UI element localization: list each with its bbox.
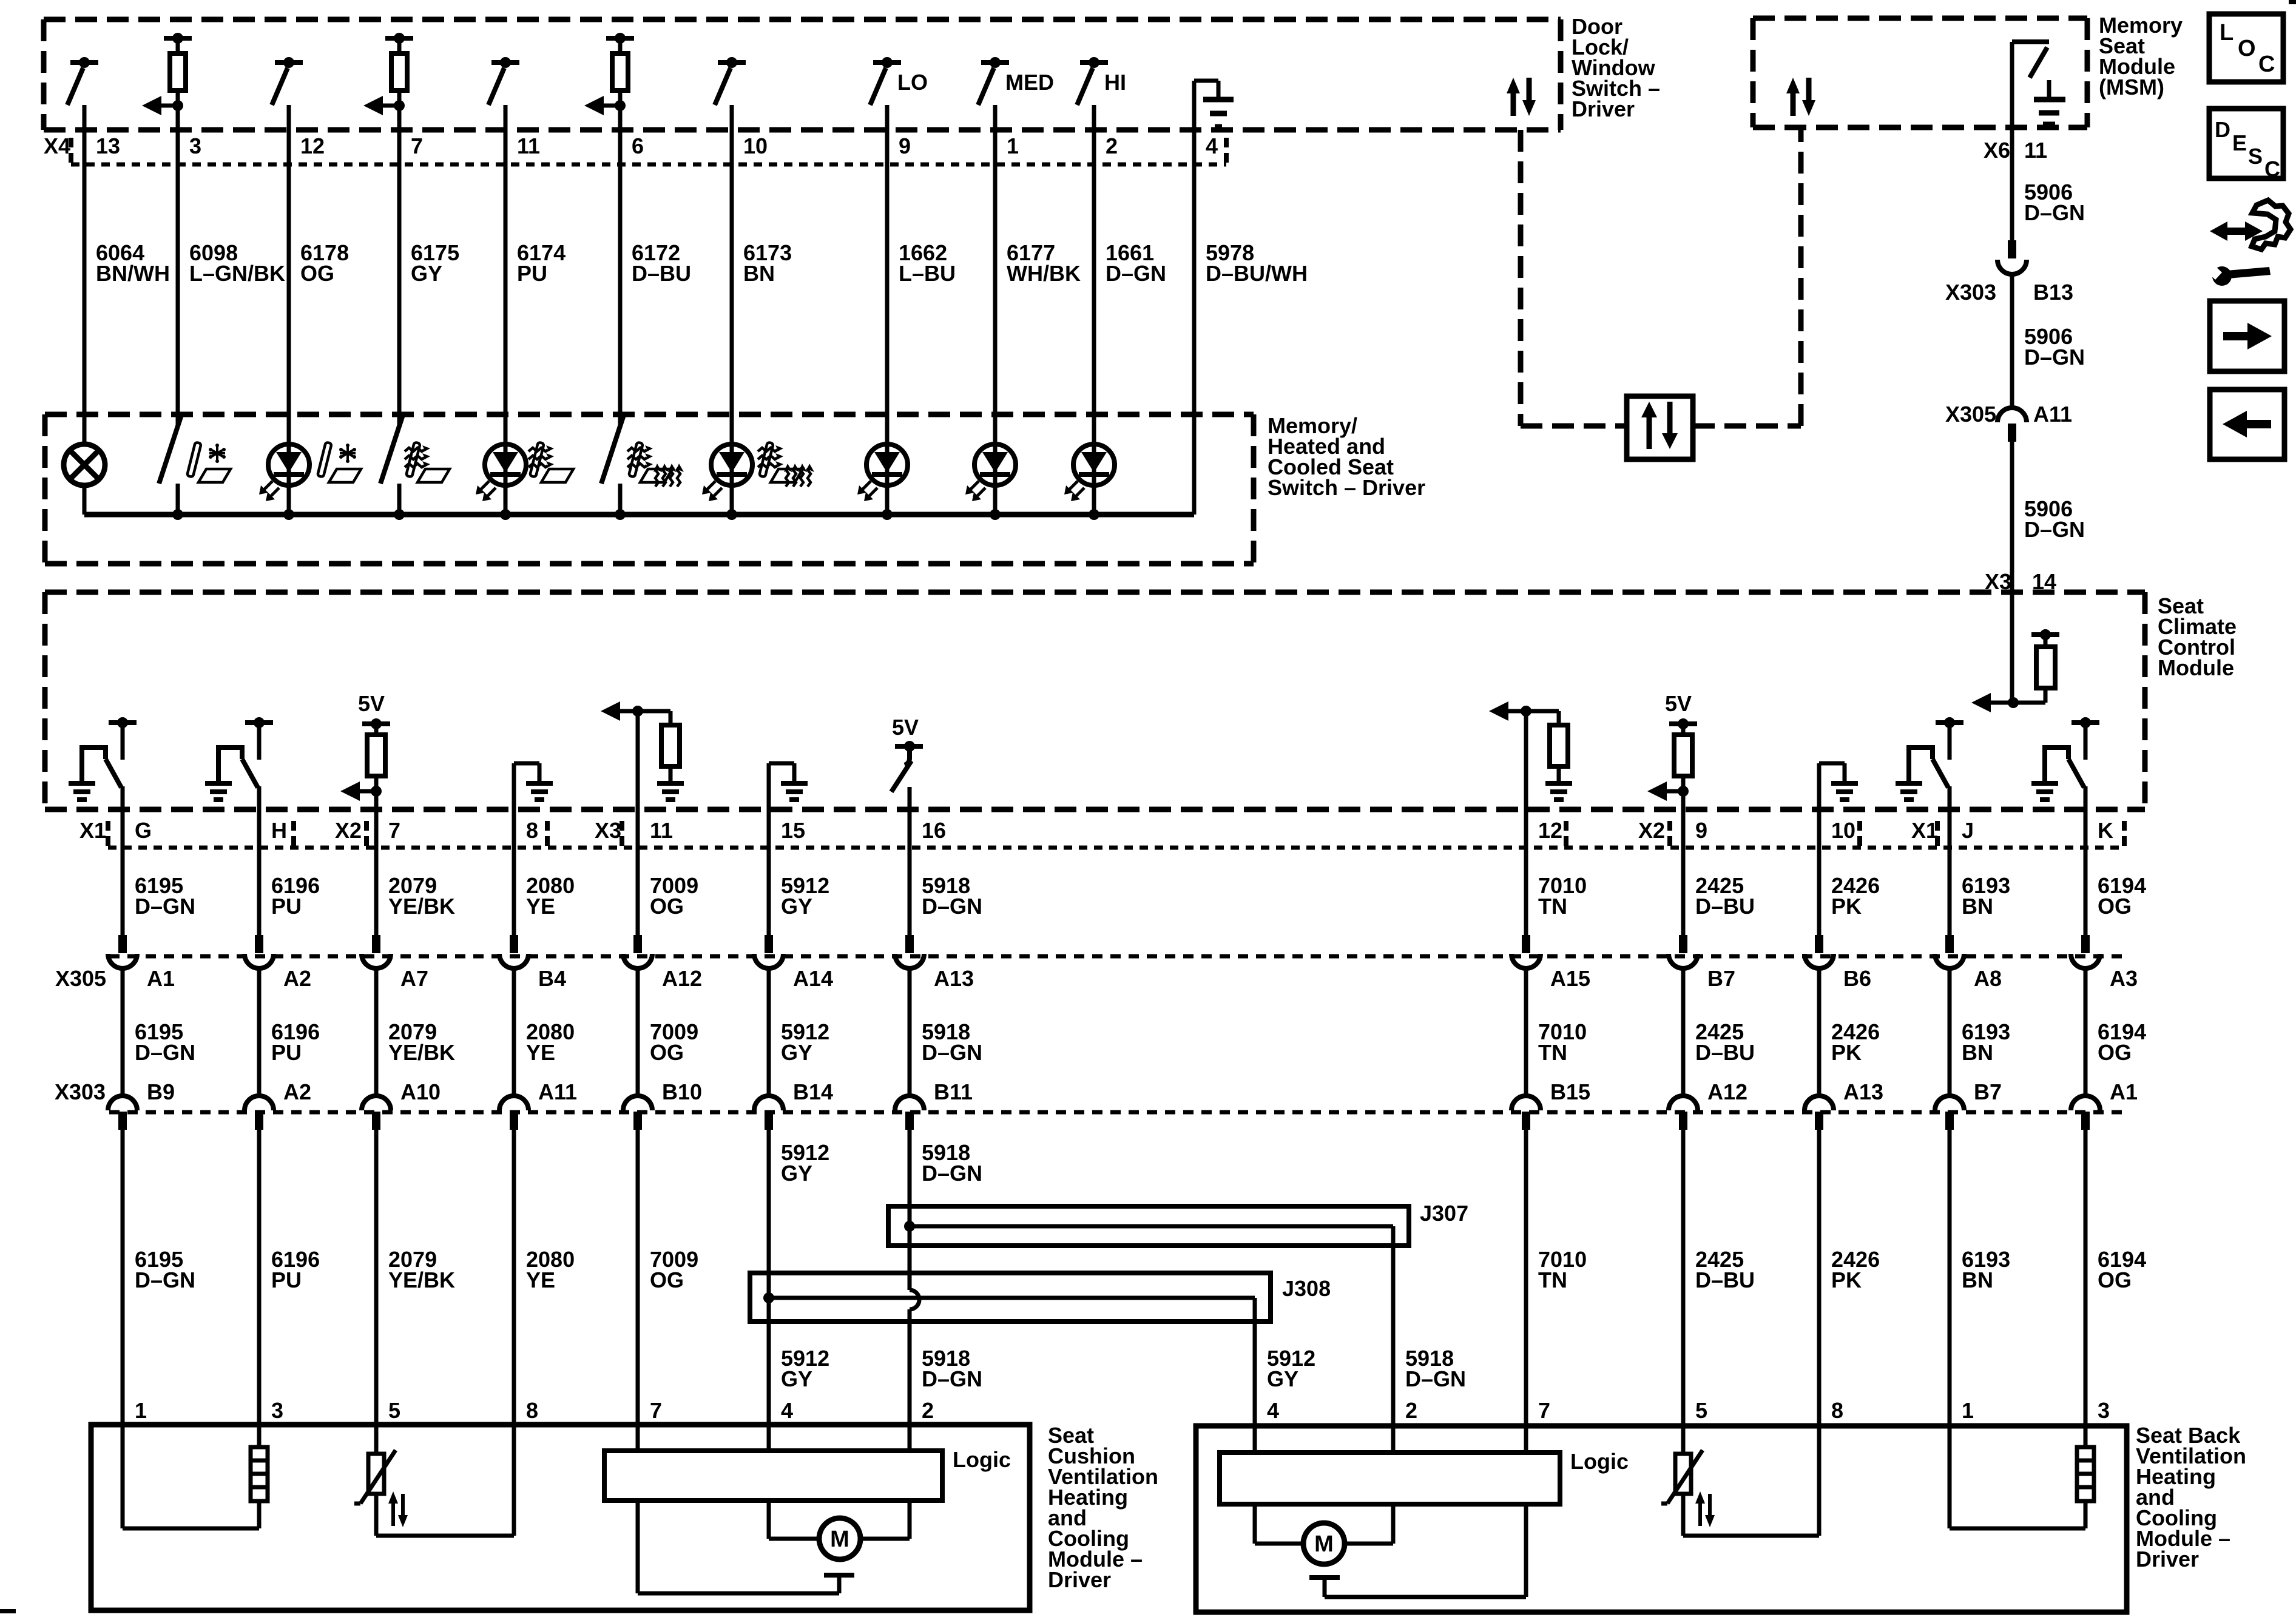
- svg-text:5V: 5V: [358, 691, 385, 716]
- svg-text:S: S: [2248, 144, 2263, 169]
- svg-text:WH/BK: WH/BK: [1007, 261, 1081, 286]
- connector X303 terminal A11: [499, 1096, 528, 1110]
- wire: [1524, 1130, 1528, 1427]
- switch contact in seat switch assembly at x=1640: [981, 60, 1009, 65]
- svg-text:A13: A13: [934, 966, 974, 991]
- svg-text:X303: X303: [1945, 280, 1996, 305]
- svg-text:5: 5: [1695, 1398, 1707, 1423]
- svg-text:Driver: Driver: [1572, 96, 1635, 121]
- temperature sensor (thermistor) at x=620: [368, 1454, 384, 1494]
- wire: [1817, 1130, 1822, 1427]
- svg-text:YE/BK: YE/BK: [388, 1040, 455, 1065]
- box: Memory/Heated-Cooled Seat + Door Lock/Window Switch assembly (top dashed box): [44, 17, 1561, 22]
- svg-text:GY: GY: [781, 1366, 812, 1391]
- svg-text:A1: A1: [2110, 1079, 2138, 1104]
- connector X305 terminal A15: [1522, 935, 1530, 953]
- signal arrow: [599, 104, 620, 108]
- svg-text:D–GN: D–GN: [2024, 200, 2085, 225]
- connector X305 terminal A1: [118, 935, 127, 953]
- svg-text:HI: HI: [1104, 70, 1126, 95]
- connector X305 terminal B4: [510, 935, 518, 953]
- svg-text:B7: B7: [1974, 1079, 2002, 1104]
- wire pin7 to logic: [636, 1427, 640, 1451]
- connector X303 terminal B10: [623, 1096, 652, 1110]
- svg-text:B7: B7: [1707, 966, 1735, 991]
- icon: harness repair (arrow + wrench): [2207, 200, 2291, 286]
- svg-text:1: 1: [1007, 133, 1019, 158]
- ground connection at x=2998: [1819, 761, 1845, 766]
- switch contact in seat switch assembly at x=476: [275, 60, 303, 65]
- svg-text:B13: B13: [2033, 280, 2073, 305]
- svg-text:D–GN: D–GN: [2024, 345, 2085, 370]
- svg-text:A3: A3: [2110, 966, 2138, 991]
- signal arrow: [157, 104, 178, 108]
- splice J307: [888, 1206, 1409, 1246]
- wire pin7 to logic (right): [1524, 1427, 1528, 1453]
- svg-text:J307: J307: [1420, 1201, 1468, 1226]
- svg-text:7: 7: [1538, 1398, 1550, 1423]
- wire 6173 from pin 10 through LED to bus: [730, 105, 734, 515]
- box: Seat Back Ventilation Heating and Cooling Module - Driver: [1196, 1426, 2127, 1612]
- svg-text:PU: PU: [271, 1268, 302, 1292]
- svg-text:8: 8: [1831, 1398, 1843, 1423]
- LED indicator at x=1462: [866, 444, 908, 485]
- wire: [512, 1130, 516, 1427]
- svg-text:TN: TN: [1538, 1268, 1567, 1292]
- up/down arrows in MSM: [1791, 89, 1796, 116]
- wire 6174 from pin 11 through LED to bus: [504, 105, 508, 515]
- svg-text:2: 2: [1106, 133, 1118, 158]
- svg-text:PU: PU: [271, 1040, 302, 1065]
- svg-text:GY: GY: [781, 1161, 812, 1186]
- ground connection at x=847: [514, 761, 539, 766]
- svg-text:X4: X4: [44, 133, 70, 158]
- wire: [1681, 1130, 1686, 1427]
- svg-text:A2: A2: [283, 966, 311, 991]
- svg-text:X305: X305: [1945, 402, 1996, 427]
- svg-text:A13: A13: [1843, 1079, 1883, 1104]
- svg-text:O: O: [2238, 36, 2256, 61]
- svg-text:Logic: Logic: [953, 1447, 1011, 1472]
- svg-text:LO: LO: [897, 70, 928, 95]
- svg-text:12: 12: [1538, 818, 1562, 843]
- heating element at x=3437: [2077, 1447, 2094, 1501]
- svg-text:YE: YE: [526, 894, 555, 919]
- input with pull-down resistor to ground at x=2515: [1521, 706, 1531, 717]
- LED indicator at x=476: [268, 444, 309, 485]
- svg-text:10: 10: [743, 133, 768, 158]
- wire 1662 from pin 9 through LED to bus: [885, 105, 890, 515]
- svg-text:OG: OG: [650, 1040, 684, 1065]
- switch contact in seat switch assembly at x=1803: [1080, 60, 1108, 65]
- motor ground return: [636, 1501, 640, 1593]
- switch to ground inside MSM: [2012, 39, 2049, 44]
- svg-text:9: 9: [1695, 818, 1707, 843]
- svg-text:E: E: [2232, 130, 2247, 155]
- svg-text:BN: BN: [1962, 1040, 1993, 1065]
- door lock / window switch arrows (up/down) inside assembly: [1511, 89, 1516, 116]
- wire: [2084, 1130, 2088, 1427]
- svg-text:J308: J308: [1282, 1276, 1331, 1301]
- svg-text:6: 6: [632, 133, 644, 158]
- svg-text:D–GN: D–GN: [922, 1040, 982, 1065]
- svg-text:B4: B4: [538, 966, 566, 991]
- svg-text:A12: A12: [662, 966, 702, 991]
- connector X303 terminal B15: [1511, 1096, 1541, 1110]
- svg-text:BN/WH: BN/WH: [96, 261, 170, 286]
- svg-text:B6: B6: [1843, 966, 1871, 991]
- svg-text:BN: BN: [1962, 1268, 1993, 1292]
- svg-text:3: 3: [271, 1398, 283, 1423]
- svg-text:C: C: [2258, 52, 2275, 77]
- svg-text:11: 11: [650, 818, 673, 843]
- motor leads: [767, 1501, 771, 1539]
- svg-text:PK: PK: [1831, 1268, 1862, 1292]
- svg-text:OG: OG: [300, 261, 334, 286]
- connector X305 terminal B6: [1815, 935, 1823, 953]
- dashed circuit route from door lock/window switch: [1518, 130, 1524, 426]
- in-line connector X305 A11: [1997, 408, 2027, 422]
- svg-text:7: 7: [388, 818, 400, 843]
- svg-text:OG: OG: [650, 1268, 684, 1292]
- svg-text:J: J: [1962, 818, 1974, 843]
- svg-text:B9: B9: [147, 1079, 175, 1104]
- bus wire in switch box: [84, 512, 1194, 518]
- box: Seat Climate Control Module: [45, 590, 2145, 595]
- LED indicator at x=833: [485, 444, 526, 485]
- svg-text:D–BU/WH: D–BU/WH: [1206, 261, 1308, 286]
- svg-text:3: 3: [2098, 1398, 2110, 1423]
- box: Seat Cushion Ventilation Heating and Cooling Module - Driver: [91, 1425, 1030, 1610]
- wires pins 4,2 to logic: [767, 1427, 771, 1451]
- svg-text:2: 2: [1405, 1398, 1417, 1423]
- module output switch to ground at x=202: [109, 720, 137, 725]
- svg-text:X305: X305: [55, 966, 106, 991]
- svg-text:2: 2: [922, 1398, 934, 1423]
- svg-text:1: 1: [1962, 1398, 1974, 1423]
- svg-text:5V: 5V: [1665, 691, 1692, 716]
- heating element at x=427: [251, 1447, 268, 1501]
- connector X303 terminal A2: [245, 1096, 274, 1110]
- svg-text:A7: A7: [400, 966, 428, 991]
- icon: heated seat (seat + heat arrows): [530, 442, 573, 482]
- wire 5906 D-GN from MSM pin 11: [2010, 42, 2014, 240]
- wire: [121, 1130, 125, 1427]
- svg-text:D–BU: D–BU: [632, 261, 691, 286]
- svg-text:BN: BN: [1962, 894, 1993, 919]
- wire: [257, 1130, 262, 1427]
- switch in seat switch box at x=293: [159, 415, 181, 484]
- signal arrow: [378, 104, 399, 108]
- svg-text:Logic: Logic: [1570, 1449, 1629, 1474]
- signal arrow: [355, 789, 376, 794]
- svg-text:GY: GY: [1267, 1366, 1298, 1391]
- svg-text:8: 8: [526, 1398, 538, 1423]
- wire pin5 to thermistor: [374, 1427, 379, 1454]
- wire pin5 to thermistor (right): [1681, 1427, 1686, 1454]
- svg-text:C: C: [2264, 157, 2280, 181]
- svg-text:OG: OG: [650, 894, 684, 919]
- switch in seat switch box at x=658: [380, 415, 403, 484]
- svg-text:OG: OG: [2098, 894, 2132, 919]
- svg-text:7: 7: [650, 1398, 662, 1423]
- module output switch to ground at x=427: [245, 720, 273, 725]
- svg-text:X2: X2: [335, 818, 362, 843]
- svg-text:PU: PU: [271, 894, 302, 919]
- svg-text:K: K: [2098, 818, 2113, 843]
- svg-text:5: 5: [388, 1398, 400, 1423]
- wire: [374, 1130, 379, 1427]
- svg-text:GY: GY: [781, 894, 812, 919]
- svg-text:X1: X1: [79, 818, 106, 843]
- window motor up/down box: [1627, 396, 1693, 459]
- LED indicator at x=1803: [1073, 444, 1115, 485]
- svg-text:16: 16: [922, 818, 946, 843]
- connector X305 terminal A2: [255, 935, 263, 953]
- signal arrow: [1662, 789, 1683, 794]
- svg-text:13: 13: [96, 133, 120, 158]
- connector X303 terminal A10: [362, 1096, 391, 1110]
- icon: heated seat back+cushion: [759, 442, 803, 482]
- svg-text:L: L: [2220, 20, 2234, 46]
- connector X303 terminal B9: [108, 1096, 137, 1110]
- icon: LOC box: [2209, 14, 2283, 82]
- svg-text:A14: A14: [793, 966, 833, 991]
- svg-text:Switch – Driver: Switch – Driver: [1268, 475, 1425, 500]
- svg-text:D–BU: D–BU: [1695, 1268, 1755, 1292]
- svg-text:9: 9: [899, 133, 911, 158]
- svg-text:(MSM): (MSM): [2099, 75, 2164, 100]
- svg-text:3: 3: [189, 133, 201, 158]
- connector X303 terminal A1: [2071, 1096, 2100, 1110]
- svg-text:Module: Module: [2158, 655, 2234, 680]
- icon: DESC box: [2209, 109, 2283, 178]
- svg-text:OG: OG: [2098, 1268, 2132, 1292]
- svg-text:OG: OG: [2098, 1040, 2132, 1065]
- heater loop: [123, 1527, 259, 1531]
- module output switch to ground at x=3213: [1936, 720, 1963, 725]
- svg-text:A8: A8: [1974, 966, 2002, 991]
- svg-text:A11: A11: [538, 1079, 577, 1104]
- svg-text:D–GN: D–GN: [1405, 1366, 1466, 1391]
- input with pull-down resistor to ground at x=1051: [632, 706, 643, 717]
- wire: [1948, 1130, 1952, 1427]
- switch contact in seat switch assembly at x=833: [491, 60, 519, 65]
- wire 5978 from ground to pin 4 and bus: [1192, 81, 1197, 515]
- svg-text:D–GN: D–GN: [2024, 517, 2085, 542]
- ground symbol in switch assembly (5978 circuit): [1194, 79, 1218, 83]
- svg-text:Driver: Driver: [1048, 1567, 1111, 1592]
- indicator lamp (circle-X): [64, 444, 105, 485]
- svg-text:X3: X3: [595, 818, 621, 843]
- connector X303 terminal B7: [1935, 1096, 1964, 1110]
- svg-text:G: G: [135, 818, 152, 843]
- icon: heated seat back+cushion: [629, 442, 672, 482]
- svg-text:B10: B10: [662, 1079, 702, 1104]
- connector X305 terminal A14: [765, 935, 773, 953]
- icon: cooled seat (seat + snowflake): [317, 442, 361, 482]
- temperature sensor (thermistor) at x=2774: [1675, 1454, 1691, 1494]
- Logic box (right): [1220, 1453, 1560, 1504]
- heater loop (right): [1948, 1427, 1952, 1528]
- svg-text:B15: B15: [1550, 1079, 1590, 1104]
- resistor (pull-up) in switch assembly at x=658: [385, 36, 413, 41]
- connector X305 terminal A12: [633, 935, 642, 953]
- svg-text:4: 4: [1267, 1398, 1279, 1423]
- svg-text:B11: B11: [934, 1079, 973, 1104]
- svg-text:D–GN: D–GN: [135, 894, 195, 919]
- connector X305 terminal A13: [905, 935, 914, 953]
- module output switch to ground at x=3437: [2071, 720, 2099, 725]
- wire: [636, 1130, 640, 1427]
- svg-text:D–GN: D–GN: [1106, 261, 1166, 286]
- connector X303 terminal A12: [1669, 1096, 1698, 1110]
- connector X303 terminal B11: [895, 1096, 924, 1110]
- svg-text:M: M: [830, 1527, 849, 1552]
- connector X303 terminal B14: [754, 1096, 783, 1110]
- icon: left arrow box: [2210, 390, 2284, 459]
- wire 6098 from pin 3 to switch: [176, 106, 180, 425]
- svg-text:X303: X303: [55, 1079, 106, 1104]
- svg-text:L–GN/BK: L–GN/BK: [189, 261, 285, 286]
- svg-text:PK: PK: [1831, 894, 1862, 919]
- connector X303 terminal A13: [1805, 1096, 1834, 1110]
- svg-text:L–BU: L–BU: [899, 261, 956, 286]
- wire 6175 from pin 7 to switch: [397, 106, 402, 425]
- svg-text:BN: BN: [743, 261, 775, 286]
- switch contact in seat switch assembly at x=1462: [873, 60, 901, 65]
- SCCM connector pin row: [106, 821, 110, 831]
- svg-text:X6: X6: [1984, 138, 2010, 163]
- svg-text:PU: PU: [517, 261, 547, 286]
- LED indicator at x=1206: [711, 444, 752, 485]
- svg-text:A2: A2: [283, 1079, 311, 1104]
- wire 6064 from pin 13 to indicator lamp: [83, 105, 87, 445]
- svg-text:Driver: Driver: [2136, 1547, 2199, 1571]
- page corner mark: [0, 1609, 16, 1613]
- svg-text:GY: GY: [781, 1040, 812, 1065]
- svg-text:10: 10: [1831, 818, 1855, 843]
- svg-text:11: 11: [517, 133, 540, 158]
- resistor (pull-up) in switch assembly at x=293: [164, 36, 192, 41]
- Logic box: [604, 1451, 942, 1501]
- svg-text:MED: MED: [1005, 70, 1054, 95]
- blower motor: [1303, 1523, 1345, 1564]
- svg-text:15: 15: [781, 818, 805, 843]
- wire 6177 from pin 1 through LED to bus: [993, 105, 998, 515]
- wire 1661 from pin 2 through LED to bus: [1092, 105, 1096, 515]
- resistor (pull-up) in switch assembly at x=1022: [606, 36, 634, 41]
- switch in seat switch box at x=1022: [601, 415, 624, 484]
- svg-text:A12: A12: [1707, 1079, 1747, 1104]
- svg-text:GY: GY: [411, 261, 442, 286]
- motor leads (right): [1253, 1504, 1257, 1544]
- svg-text:4: 4: [781, 1398, 793, 1423]
- svg-text:8: 8: [526, 818, 538, 843]
- svg-text:PK: PK: [1831, 1040, 1862, 1065]
- svg-text:1: 1: [135, 1398, 147, 1423]
- svg-text:X2: X2: [1638, 818, 1665, 843]
- svg-text:X1: X1: [1911, 818, 1938, 843]
- connector X305 terminal A7: [372, 935, 380, 953]
- svg-text:A15: A15: [1550, 966, 1590, 991]
- wire 6172 from pin 6 to switch: [618, 106, 623, 425]
- icon: cooled seat (seat + snowflake): [187, 442, 231, 482]
- svg-text:D–GN: D–GN: [922, 894, 982, 919]
- svg-text:A1: A1: [147, 966, 175, 991]
- svg-text:5V: 5V: [892, 715, 919, 740]
- svg-text:4: 4: [1206, 133, 1218, 158]
- in-line connector X303 B13: [2008, 240, 2016, 258]
- svg-text:7: 7: [411, 133, 423, 158]
- svg-text:D–GN: D–GN: [922, 1366, 982, 1391]
- blower motor: [819, 1518, 860, 1559]
- svg-text:YE: YE: [526, 1040, 555, 1065]
- svg-text:D–BU: D–BU: [1695, 1040, 1755, 1065]
- svg-text:TN: TN: [1538, 894, 1567, 919]
- svg-text:A11: A11: [2033, 402, 2072, 427]
- icon: heated seat (seat + heat arrows): [406, 442, 450, 482]
- svg-text:H: H: [271, 818, 287, 843]
- svg-text:YE: YE: [526, 1268, 555, 1292]
- svg-text:M: M: [1314, 1531, 1334, 1557]
- 5906 input junction with pull-up inside SCCM: [2010, 592, 2014, 703]
- svg-text:A10: A10: [400, 1079, 441, 1104]
- connector X305 terminal A3: [2081, 935, 2090, 953]
- svg-text:D–BU: D–BU: [1695, 894, 1755, 919]
- wire 5912 below X303 with J308 splice: [767, 1130, 771, 1427]
- switch contact in seat switch assembly at x=1206: [718, 60, 746, 65]
- wire 6178 from pin 12 through LED to bus: [287, 105, 291, 515]
- svg-text:D–GN: D–GN: [135, 1040, 195, 1065]
- svg-text:YE/BK: YE/BK: [388, 1268, 455, 1292]
- svg-text:YE/BK: YE/BK: [388, 894, 455, 919]
- motor ground return (right): [1524, 1504, 1528, 1597]
- icon: right arrow box: [2210, 301, 2284, 371]
- box: Memory/Heated and Cooled Seat Switch - Driver: [45, 412, 1254, 417]
- switch contact in seat switch assembly at x=139: [70, 60, 98, 65]
- svg-text:11: 11: [2024, 138, 2047, 163]
- wire pin1 down: [121, 1427, 125, 1528]
- wires pins 4,2 to logic (right): [1253, 1427, 1257, 1453]
- svg-text:D–GN: D–GN: [135, 1268, 195, 1292]
- svg-text:12: 12: [300, 133, 325, 158]
- ground connection at x=1267: [769, 761, 794, 766]
- connector X305 terminal B7: [1679, 935, 1687, 953]
- svg-text:TN: TN: [1538, 1040, 1567, 1065]
- LED indicator at x=1640: [974, 444, 1016, 485]
- box: Memory Seat Module (MSM): [1753, 16, 2087, 21]
- splice J308: [750, 1273, 1271, 1322]
- wire 5918 below X303 with J307 splice and hop: [908, 1130, 912, 1290]
- svg-text:D: D: [2215, 117, 2230, 142]
- page corner mark top right: [2289, 0, 2296, 4]
- connector X305 terminal A8: [1945, 935, 1954, 953]
- svg-text:D–GN: D–GN: [922, 1161, 982, 1186]
- svg-text:B14: B14: [793, 1079, 833, 1104]
